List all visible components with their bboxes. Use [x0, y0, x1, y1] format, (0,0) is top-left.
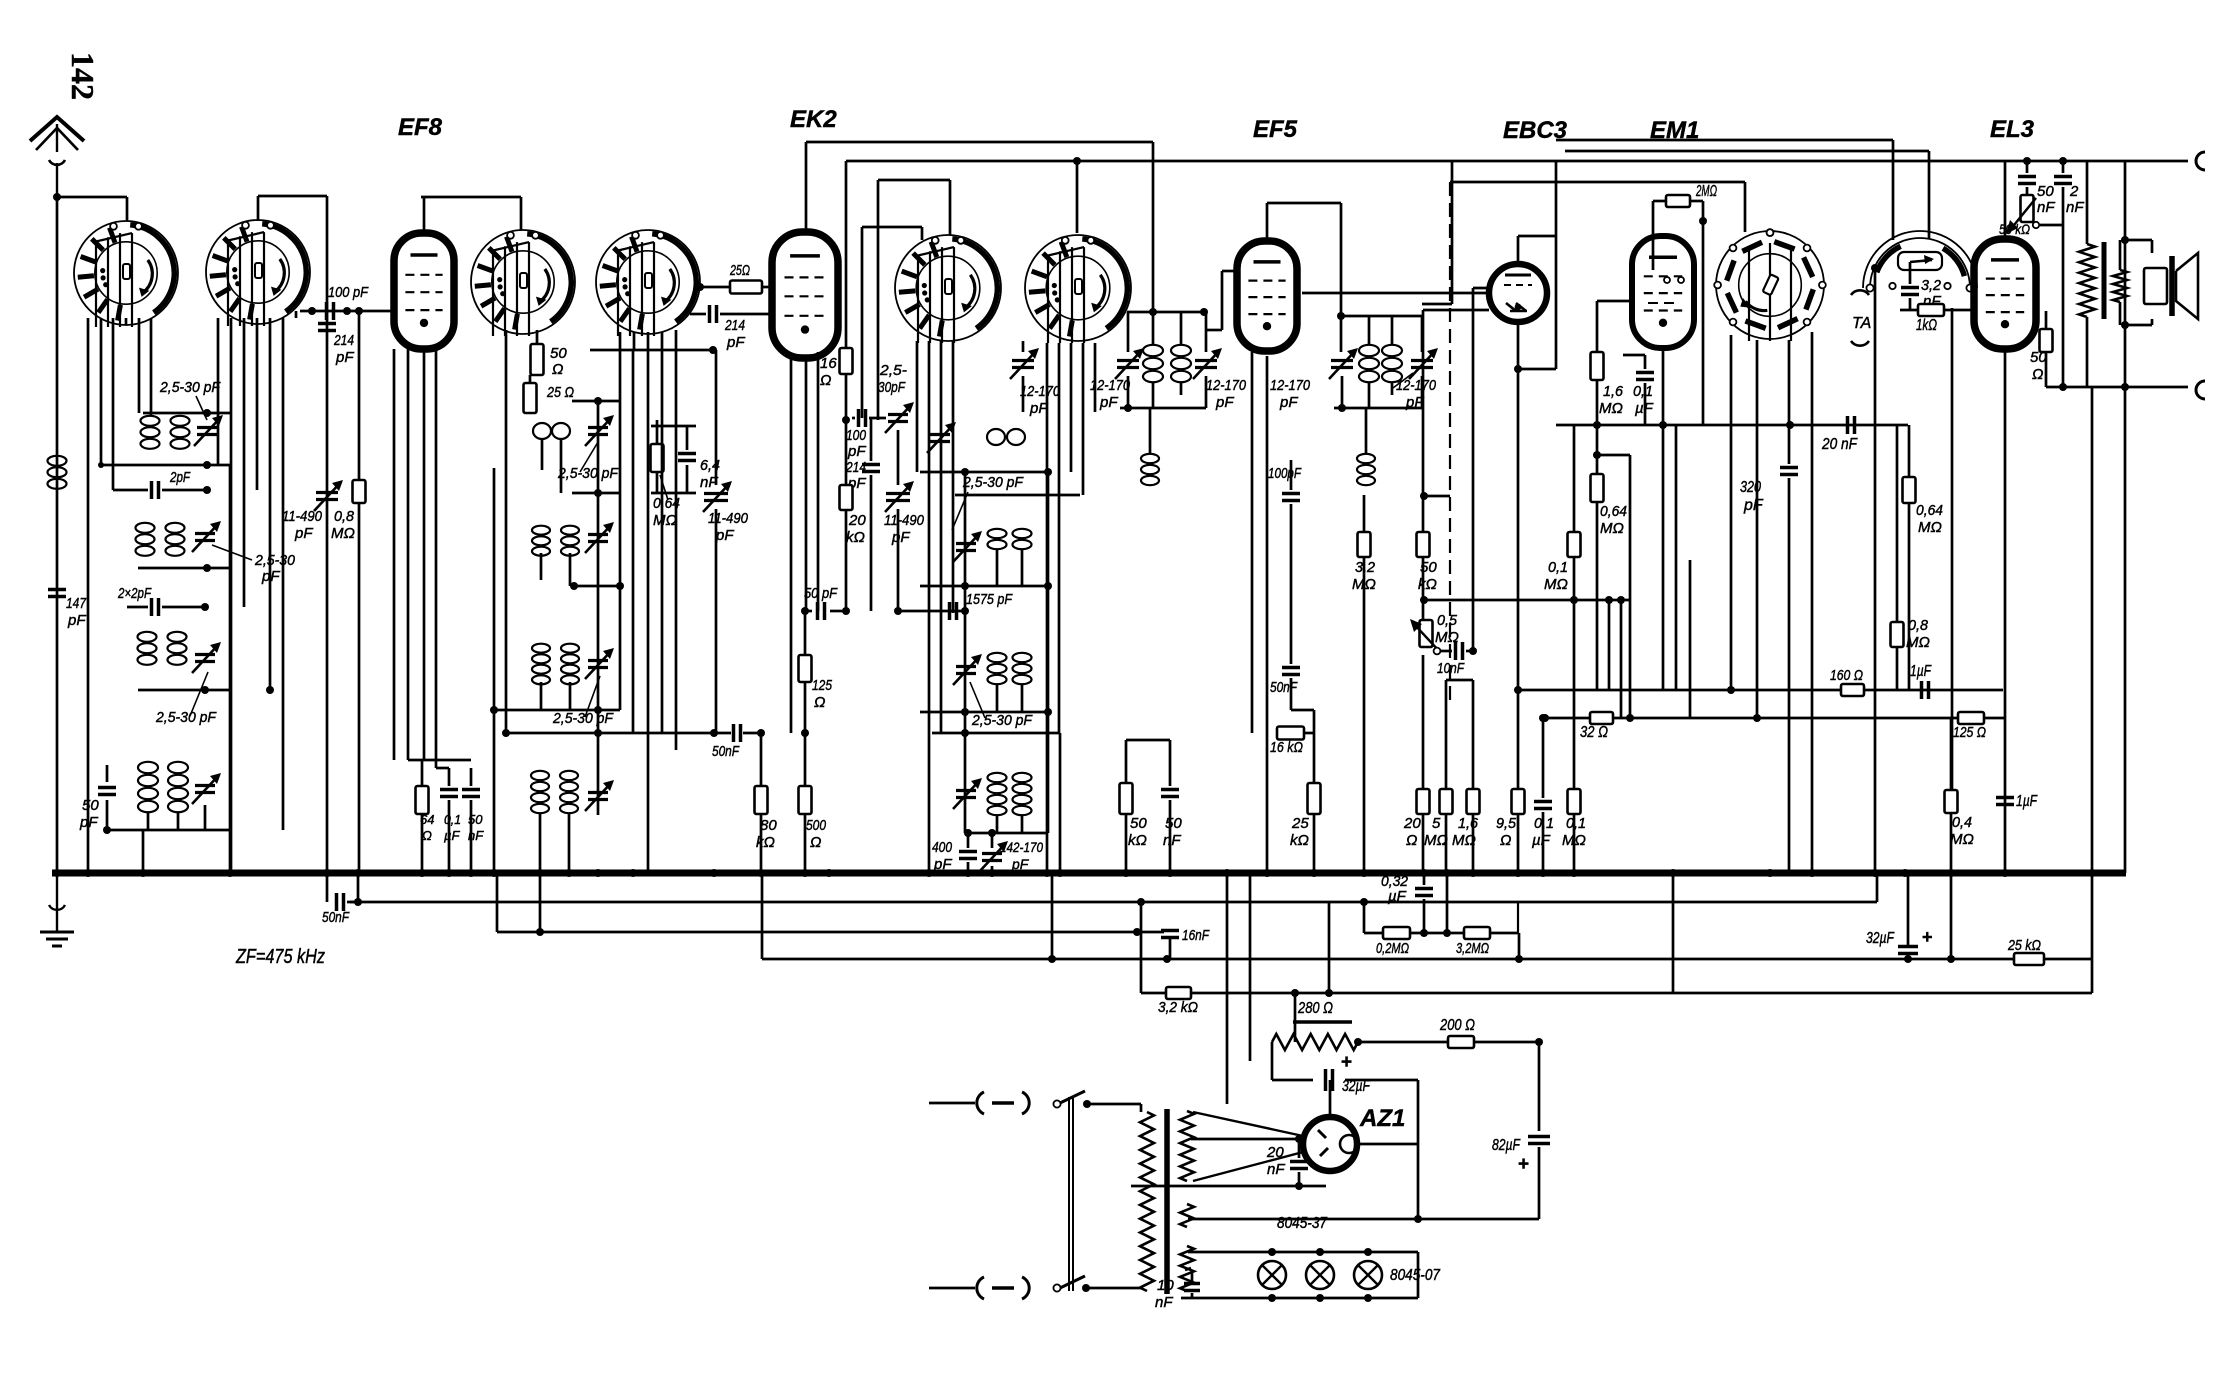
svg-text:µF: µF: [1635, 400, 1654, 417]
capacitor 6.4nF (EF8): [678, 426, 720, 493]
svg-text:142-170: 142-170: [1000, 839, 1043, 855]
trimmer 12-170pF b: [1193, 348, 1247, 411]
capacitor 2x2pF: [117, 585, 209, 616]
svg-text:20: 20: [848, 512, 866, 529]
svg-text:MΩ: MΩ: [1918, 519, 1942, 536]
resistor 0.64M (right): [1903, 425, 1944, 690]
trimmer osc stack b: [953, 531, 982, 562]
wire osc verticals: [917, 341, 1060, 873]
svg-text:50: 50: [82, 797, 99, 814]
rotary switch wafer S3b: [1025, 235, 1131, 343]
svg-text:50 pF: 50 pF: [804, 585, 838, 602]
capacitor 1uF (EL3 cath): [1996, 793, 2038, 810]
lamp 2: [1306, 1261, 1334, 1289]
wire L-block rail3 bottom: [138, 686, 274, 694]
capacitor 50nF (EF5): [1270, 668, 1300, 711]
label 2.5-30pF osc2: [970, 682, 1033, 729]
svg-text:Ω: Ω: [810, 834, 821, 851]
trimmer 11-490pF (EF8): [703, 350, 749, 733]
selector half wafer: [1863, 231, 1977, 292]
trimmer osc stack c: [953, 654, 982, 685]
wire rowB mid: [1410, 929, 1464, 937]
svg-text:12-170: 12-170: [1206, 377, 1247, 394]
capacitor 82uF: [1492, 1137, 1550, 1220]
svg-text:MΩ: MΩ: [1950, 831, 1974, 848]
svg-text:Ω: Ω: [1406, 832, 1417, 849]
tube EM1: [1632, 236, 1694, 348]
trimmer 2.5-30pF f: [585, 522, 614, 553]
wire L-block rail1 top: [143, 409, 230, 417]
svg-text:280 Ω: 280 Ω: [1297, 1000, 1333, 1017]
svg-text:MΩ: MΩ: [1562, 832, 1586, 849]
wire HT diag b: [1193, 1152, 1303, 1181]
resistor 125 Ohm: [799, 607, 833, 733]
svg-text:µF: µF: [1532, 832, 1551, 849]
resistor 20 Ohm: [1403, 647, 1430, 873]
svg-text:214: 214: [845, 459, 866, 476]
svg-text:nF: nF: [2066, 199, 2084, 216]
antenna: [30, 117, 84, 197]
wire 32uF top row: [1272, 1079, 1418, 1082]
resistor 25k: [2007, 937, 2044, 965]
speaker: [2144, 253, 2198, 319]
resistor 1.6M (EM1): [1591, 352, 1624, 417]
coil L4a: [138, 632, 157, 665]
wire IF2 bottom: [1334, 376, 1422, 412]
coil L3a: [136, 523, 155, 556]
svg-text:0,4: 0,4: [1952, 814, 1972, 831]
svg-text:EF5: EF5: [1253, 116, 1298, 143]
wire rowA 50nF line: [350, 898, 1877, 906]
capacitor 50nF (EF8 line): [633, 724, 762, 760]
svg-text:3,2: 3,2: [1921, 277, 1942, 294]
ground antenna: [40, 873, 74, 946]
resistor 500 Ohm: [799, 729, 827, 873]
capacitor 147pF: [48, 590, 87, 630]
svg-text:nF: nF: [1267, 1161, 1285, 1178]
IF transformer 1 coil a: [1143, 345, 1163, 382]
wire EF8-stack rail5: [502, 729, 633, 737]
coil L6a: [533, 423, 570, 439]
svg-text:kΩ: kΩ: [1128, 832, 1147, 849]
label 8045-37: [1277, 1215, 1328, 1232]
svg-text:400: 400: [932, 839, 953, 856]
wire EBC3 cathode link: [1514, 365, 1556, 373]
svg-text:12-170: 12-170: [1090, 377, 1131, 394]
wire osc link: [894, 607, 969, 615]
wire EF8 anode feed: [590, 346, 717, 354]
label 12-170pF c: [1270, 377, 1311, 411]
svg-text:nF: nF: [2037, 199, 2055, 216]
wire AZ1 bottom link: [1131, 1180, 1326, 1190]
wire EM1 mid verticals: [1676, 425, 1690, 718]
wire W2 pin lead: [295, 311, 298, 318]
svg-text:pF: pF: [891, 529, 910, 546]
svg-text:50: 50: [550, 345, 567, 362]
svg-text:pF: pF: [726, 334, 745, 351]
resistor 80k: [755, 729, 778, 873]
resistor 3.2k: [1158, 987, 1198, 1016]
wire lamp top rail: [1188, 1246, 1418, 1256]
wire EF8-stack rail1: [572, 397, 620, 405]
wire osc-stack rail4: [920, 708, 1052, 716]
svg-text:Ω: Ω: [552, 361, 563, 378]
capacitor 2nF (EL3): [2054, 161, 2084, 387]
mains switch link: [1069, 1097, 1073, 1291]
svg-text:2,5-30 pF: 2,5-30 pF: [552, 710, 614, 727]
resistor 2M: [1653, 183, 1717, 425]
svg-text:500: 500: [806, 817, 827, 834]
svg-text:MΩ: MΩ: [1452, 832, 1476, 849]
wire W1 pin lead: [138, 318, 141, 413]
svg-text:25Ω: 25Ω: [729, 262, 750, 279]
resistor 25 Ohm (EK2 grid): [696, 262, 772, 294]
trimmer 142-170pF: [979, 833, 1043, 873]
resistor 125 Ohm (row): [1953, 712, 2005, 741]
svg-text:2pF: 2pF: [169, 469, 190, 486]
resistor 50k (left): [1120, 740, 1148, 873]
resistor 50 Ohm (EL3): [2030, 311, 2053, 387]
wire x1519 drop: [1518, 902, 1520, 995]
wire 200 row: [1358, 1038, 1543, 1046]
svg-text:142: 142: [65, 52, 101, 100]
svg-text:1,6: 1,6: [1603, 383, 1624, 400]
output transformer secondary: [2113, 240, 2127, 325]
svg-text:pF: pF: [294, 525, 313, 542]
wire 214pF column: [326, 196, 329, 873]
capacitor 0.32uF: [1381, 873, 1433, 933]
resistor 0.1M (b): [1562, 557, 1586, 873]
capacitor 50pF (osc): [804, 585, 846, 620]
svg-text:0,8: 0,8: [1908, 617, 1929, 634]
capacitor 214pF (osc): [845, 418, 880, 611]
wire EF8-stack rail4: [490, 706, 620, 714]
wire AZ1 cathode out: [1356, 1080, 1418, 1219]
svg-text:+: +: [1922, 927, 1933, 947]
resistor 3.2M (rowB): [1456, 927, 1490, 957]
svg-text:2,5-30 pF: 2,5-30 pF: [155, 709, 217, 726]
wire top rail A: [1565, 151, 1929, 238]
svg-text:50 kΩ: 50 kΩ: [1999, 221, 2030, 237]
trimmer osc stack d: [953, 778, 982, 809]
label 2.5-30pF b: [212, 545, 296, 585]
wire selector stubs: [1731, 232, 1812, 873]
svg-text:EL3: EL3: [1990, 116, 2035, 143]
capacitor 50nF (rowA): [322, 869, 358, 926]
output terminal bottom: [2196, 381, 2205, 399]
wire feedback vertical: [2091, 387, 2094, 993]
wire W2 pin lead: [282, 318, 285, 830]
svg-text:pF: pF: [847, 443, 866, 460]
wire x1329 drop: [1328, 873, 1330, 993]
svg-text:0,1: 0,1: [1548, 559, 1568, 576]
svg-text:3,2 kΩ: 3,2 kΩ: [1158, 999, 1198, 1016]
svg-text:16 kΩ: 16 kΩ: [1270, 739, 1303, 756]
capacitor 2pF: [113, 469, 211, 499]
svg-text:pF: pF: [1743, 497, 1764, 514]
capacitor 20nF (PSU): [1266, 1139, 1308, 1186]
wire W2 pin lead: [269, 318, 272, 690]
wire top rail F: [1556, 140, 1893, 240]
wire EK2 cathode: [805, 358, 808, 611]
coil L3b: [166, 523, 185, 556]
node antenna junction: [53, 193, 61, 201]
wire W2 pin lead: [217, 318, 220, 465]
svg-text:20 nF: 20 nF: [1821, 436, 1858, 453]
rotary switch wafer S1b: [206, 220, 310, 326]
svg-text:125: 125: [812, 677, 833, 694]
wire EBC3 top: [1518, 236, 1556, 264]
wire IF1 grid line: [1149, 308, 1208, 316]
svg-text:pF: pF: [715, 527, 734, 544]
capacitor 1575pF: [950, 591, 1013, 620]
tube EF5: [1237, 241, 1297, 351]
label AZ1: [1359, 1105, 1405, 1132]
wire L-block4 to bus: [143, 465, 230, 873]
svg-text:Ω: Ω: [2032, 366, 2043, 383]
resistor 160 Ohm: [1830, 667, 1864, 696]
svg-text:5: 5: [1432, 815, 1441, 832]
svg-text:25 kΩ: 25 kΩ: [2007, 937, 2041, 954]
wire EBC3 grid: [1423, 309, 1489, 312]
resistor 5M: [1424, 680, 1473, 873]
coil L8a: [532, 644, 550, 685]
svg-text:1µF: 1µF: [2016, 793, 2038, 810]
svg-text:50: 50: [1165, 815, 1182, 832]
svg-text:100pF: 100pF: [1268, 465, 1302, 482]
svg-text:pF: pF: [79, 814, 98, 831]
svg-text:nF: nF: [468, 828, 484, 843]
wire rowB right segment: [1364, 902, 1383, 933]
svg-text:0,64: 0,64: [1600, 503, 1627, 520]
capacitor 100pF (EF5): [1264, 460, 1302, 664]
svg-text:MΩ: MΩ: [1600, 520, 1624, 537]
resistor 50k (AVC): [1417, 532, 1438, 593]
trimmer 2.5-30pF g: [585, 648, 614, 679]
svg-text:3,2MΩ: 3,2MΩ: [1456, 940, 1489, 957]
coil L2b: [171, 416, 190, 449]
wire rowD line: [1141, 902, 2092, 997]
wire 0.64M/6.4n pair: [633, 420, 696, 493]
wire antenna feed: [57, 197, 127, 221]
label EF8: [398, 114, 443, 141]
svg-text:2,5-30 pF: 2,5-30 pF: [159, 379, 221, 396]
wire EF5 cathode: [1266, 356, 1269, 873]
capacitor 0.1uF (EM1): [1623, 355, 1654, 425]
svg-text:0,1: 0,1: [1566, 815, 1586, 832]
resistor 3.2M: [1352, 495, 1376, 873]
transformer core: [1164, 1109, 1170, 1294]
label 8045-07: [1390, 1267, 1441, 1284]
tube EK2: [772, 232, 838, 358]
svg-text:0,2MΩ: 0,2MΩ: [1376, 940, 1409, 957]
coil antenna L1: [48, 456, 67, 489]
wire lamp bottom rail: [1181, 1252, 1418, 1302]
svg-text:pF: pF: [1099, 394, 1118, 411]
trimmer 2.5-30pF d: [192, 773, 221, 804]
svg-text:0,1: 0,1: [1633, 383, 1653, 400]
resistor 0.64M (EM1): [1591, 455, 1631, 718]
capacitor 32uF (cath): [1326, 1052, 1371, 1095]
wire W1 pin lead: [87, 318, 90, 873]
wire EF8-stack rail3: [570, 582, 624, 590]
wire osc grid rail: [862, 227, 922, 418]
tube AZ1: [1303, 1117, 1358, 1171]
trimmer 11-490pF (osc): [884, 430, 925, 611]
svg-text:12-170: 12-170: [1020, 383, 1061, 400]
svg-text:TA: TA: [1852, 315, 1871, 332]
svg-text:50: 50: [2037, 183, 2054, 200]
wire EM1 col leads: [1605, 596, 1625, 718]
wire EL3 cathode: [2004, 349, 2007, 873]
resistor 0.2M: [1376, 927, 1410, 957]
tube EBC3: [1489, 264, 1547, 322]
wire EF8 top rail: [421, 197, 521, 233]
resistor 25k (EF5 cath): [1290, 783, 1321, 873]
label 2.5-30pF g: [552, 676, 614, 727]
svg-text:MΩ: MΩ: [1424, 832, 1448, 849]
capacitor 50nF (EF8): [462, 768, 484, 873]
resistor 1k: [1900, 304, 1974, 334]
wire osc-stack rail5: [932, 729, 1060, 737]
trimmer 2.5-30pF c: [192, 642, 221, 673]
svg-text:100 pF: 100 pF: [328, 284, 369, 301]
wire EF5 grid2 line: [1302, 292, 1489, 295]
wire x1052 drop: [1051, 873, 1054, 959]
wire W4 pin leads: [620, 330, 714, 873]
wire W2 top rail: [258, 196, 327, 221]
label EBC3: [1503, 117, 1568, 144]
transformer secondary heaters: [1180, 1246, 1194, 1291]
capacitor 1uF (row): [1910, 663, 1932, 699]
IF transformer 2 coil b: [1382, 345, 1402, 382]
svg-text:25: 25: [1291, 815, 1309, 832]
wire EBC3 anode rail: [846, 161, 2005, 369]
wire output bottom rail: [2046, 383, 2188, 391]
capacitor 10nF: [1434, 642, 1477, 677]
rotary switch wafer S2a: [471, 230, 575, 336]
trimmer 12-170pF osc padder: [1010, 341, 1061, 417]
svg-text:nF: nF: [1155, 1294, 1173, 1311]
svg-text:pF: pF: [1029, 400, 1048, 417]
coil L5a: [138, 762, 158, 812]
svg-text:100: 100: [846, 427, 867, 444]
svg-text:MΩ: MΩ: [1352, 576, 1376, 593]
wire 20nF row: [1556, 421, 1908, 429]
wire EM1 cathode: [1659, 348, 1667, 690]
wire HT diag a: [1193, 1112, 1303, 1136]
wire EF8 cathode drop: [408, 349, 471, 786]
wire EM1 top rails: [1450, 182, 1745, 232]
resistor 32 Ohm: [1580, 712, 1613, 741]
wire W1 pin lead: [100, 318, 103, 465]
svg-text:32µF: 32µF: [1342, 1078, 1371, 1095]
svg-text:11-490: 11-490: [884, 512, 925, 529]
transformer secondary rect fil: [1180, 1204, 1194, 1227]
resistor 280 Ohm: [1272, 1000, 1362, 1050]
svg-text:50nF: 50nF: [1270, 679, 1298, 696]
wire W6 pin leads: [1047, 343, 1095, 873]
svg-text:20: 20: [1266, 1144, 1284, 1161]
svg-text:pF: pF: [1279, 394, 1298, 411]
svg-text:12-170: 12-170: [1396, 377, 1437, 394]
capacitor 20nF: [1821, 416, 1858, 453]
coil L11a: [988, 529, 1032, 549]
wire output right vertical: [2124, 161, 2127, 873]
resistor 16k (EF5): [1267, 710, 1314, 783]
capacitor 320pF: [1740, 468, 1798, 515]
svg-text:8045-07: 8045-07: [1390, 1267, 1441, 1284]
svg-text:50nF: 50nF: [712, 743, 740, 760]
wire EM1 grid leak down: [1593, 380, 1601, 459]
wire mains to transformer: [1086, 1104, 1141, 1291]
coil IF2 third winding: [1357, 408, 1375, 530]
capacitor 214pF (left): [318, 324, 354, 367]
wire EF5 grid: [1206, 271, 1237, 330]
label TA input: [1851, 290, 1871, 345]
svg-text:Ω: Ω: [820, 372, 831, 389]
capacitor 16nF: [1161, 927, 1210, 959]
svg-text:3,2: 3,2: [1355, 559, 1376, 576]
lamp 1: [1258, 1261, 1286, 1289]
wire EM1 grid: [1597, 301, 1633, 352]
transformer primary: [1140, 1112, 1154, 1291]
wire EK2 pin leads: [791, 352, 818, 733]
trimmer 2.5-30pF osc: [878, 362, 914, 433]
resistor 9.5 Ohm: [1496, 690, 1525, 873]
svg-text:nF: nF: [1163, 832, 1181, 849]
capacitor 100pF (osc): [846, 409, 886, 460]
svg-text:82µF: 82µF: [1492, 1137, 1521, 1154]
wire W2 pin lead: [256, 318, 259, 490]
wire IF2 top: [1341, 161, 1452, 352]
resistor 0.8M: [1891, 425, 1930, 690]
resistor 200 Ohm: [1439, 1017, 1475, 1048]
svg-text:pF: pF: [261, 568, 280, 585]
svg-text:2,5-30 pF: 2,5-30 pF: [971, 712, 1033, 729]
wire IF1 bottom: [1120, 376, 1206, 412]
trimmer 2.5-30pF b: [192, 521, 221, 552]
wire 8045-37 rail: [1188, 1210, 1539, 1223]
svg-text:0,1: 0,1: [444, 812, 461, 827]
wire row y718: [1541, 714, 1958, 722]
label EM1: [1650, 117, 1699, 144]
svg-text:2,5-: 2,5-: [879, 362, 907, 379]
svg-text:147: 147: [66, 595, 87, 612]
wire osc-stack rail1: [920, 468, 1052, 476]
wire osc-stack rail2: [955, 494, 1080, 497]
wire L-block rail1 bottom: [98, 461, 230, 469]
svg-text:MΩ: MΩ: [1599, 400, 1623, 417]
svg-text:10: 10: [1157, 1277, 1174, 1294]
wire L-block rail2 bottom: [138, 564, 230, 572]
svg-text:214: 214: [724, 317, 745, 334]
capacitor 0.1uF (b): [1532, 714, 1554, 873]
svg-text:+: +: [1341, 1052, 1352, 1073]
svg-text:ZF=475 kHz: ZF=475 kHz: [235, 946, 325, 968]
svg-text:2,5-30: 2,5-30: [254, 552, 296, 569]
coil L13a: [988, 773, 1032, 815]
wire 280 column: [1272, 993, 1295, 1080]
label EL3: [1990, 116, 2035, 143]
svg-text:EF8: EF8: [398, 114, 443, 141]
svg-text:50: 50: [468, 812, 483, 827]
resistor 20k (osc): [840, 485, 867, 560]
output terminal top: [2196, 152, 2205, 170]
transformer secondary HT: [1180, 1111, 1194, 1181]
wire speaker top: [2121, 236, 2152, 253]
svg-text:2: 2: [2069, 183, 2079, 200]
